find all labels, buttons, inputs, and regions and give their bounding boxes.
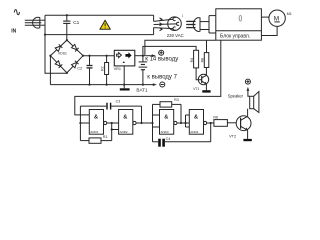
diode VDS1 lower-left — [55, 61, 62, 68]
wire motor return — [261, 26, 277, 35]
node junction — [184, 122, 186, 124]
transistor VT1 — [193, 68, 208, 92]
arrow to pin 14 — [146, 54, 156, 57]
capacitor C3 — [80, 99, 141, 109]
node junction — [123, 84, 125, 86]
resistor R3 — [153, 98, 182, 107]
wire feedback tie — [111, 123, 113, 141]
gate AND2 — [119, 110, 136, 135]
wire VR1 out to node — [135, 55, 145, 57]
plus symbol above speaker — [245, 79, 250, 84]
transistor VT2 — [229, 109, 251, 139]
node junction — [66, 72, 68, 74]
node junction — [49, 55, 51, 57]
svg-text:VDS1: VDS1 — [58, 52, 67, 56]
wire control box to oscillator enable — [75, 40, 221, 115]
node junction — [142, 84, 144, 86]
capacitor C1 — [63, 15, 79, 40]
resistor R8 — [201, 40, 209, 67]
wire into gate1 input — [80, 122, 89, 124]
wire top rail — [45, 14, 154, 16]
plug XP2 to control unit — [186, 18, 200, 32]
svg-text:M: M — [274, 15, 279, 22]
svg-text:C2: C2 — [77, 65, 83, 70]
ground under VT1 — [202, 90, 210, 92]
wire R4 to VT1 base — [196, 68, 202, 80]
node junction C1 top — [66, 14, 68, 16]
node junction — [88, 84, 90, 86]
wire gate4 out — [207, 122, 214, 124]
diode VDS1 upper-right — [72, 44, 79, 51]
svg-text:&: & — [94, 114, 98, 120]
AC sine symbol — [14, 10, 19, 15]
diode VDS1 upper-left — [55, 44, 62, 51]
wire gate2 out — [136, 122, 152, 124]
svg-text:VT2: VT2 — [229, 134, 236, 138]
resistor R1 — [80, 135, 111, 143]
bridge rectifier VDS1 — [50, 40, 83, 73]
svg-text:AND2: AND2 — [120, 130, 128, 134]
svg-text:R2: R2 — [100, 66, 104, 70]
node junction — [210, 122, 212, 124]
node bridge vertices — [66, 39, 68, 41]
svg-text:R4: R4 — [190, 58, 194, 62]
svg-text:&: & — [123, 114, 127, 120]
wire gate1 out to gate2 — [107, 122, 119, 124]
voltage regulator VR1 — [114, 50, 135, 71]
warning triangle — [100, 20, 110, 29]
svg-text:C4: C4 — [166, 137, 171, 141]
wire plug to rails — [41, 19, 45, 21]
speaker — [228, 92, 259, 113]
svg-text:230 VAC: 230 VAC — [167, 33, 184, 38]
node junction — [82, 55, 84, 57]
wire R3 feedback down — [180, 104, 182, 123]
svg-text:C1: C1 — [73, 20, 79, 26]
wire supply line A (to control box bottom corner) — [145, 40, 216, 56]
wire gate3 out — [177, 122, 189, 124]
node junction — [142, 55, 144, 57]
gate AND1 — [89, 110, 106, 135]
svg-text:R6: R6 — [213, 116, 218, 120]
node junction — [79, 122, 81, 124]
connector fan to socket — [154, 15, 177, 34]
socket XS1 230VAC — [167, 14, 184, 38]
svg-text:BAT1: BAT1 — [136, 87, 148, 92]
svg-text:&: & — [164, 114, 168, 120]
wire DC plus: bridge right vertex to VR1 — [83, 55, 114, 57]
resistor R6 — [213, 116, 236, 127]
svg-text:R3: R3 — [174, 98, 179, 102]
svg-text:R1: R1 — [103, 135, 108, 139]
gate AND4 — [189, 110, 206, 135]
svg-text:C3: C3 — [116, 99, 121, 103]
resistor R4 — [190, 50, 199, 68]
node junction — [151, 122, 153, 124]
plus symbol — [159, 50, 164, 55]
node junction — [180, 122, 182, 124]
svg-text:R8: R8 — [201, 58, 205, 62]
plug XP1 (mains plug) — [25, 17, 42, 28]
wire C3 right to gate2 out — [141, 106, 143, 123]
minus symbol — [160, 82, 165, 87]
wire left vertical (plug riser / AC feed to bridge) — [45, 15, 67, 73]
svg-text:к 14 выводу: к 14 выводу — [145, 57, 178, 63]
svg-text:AND3: AND3 — [161, 130, 169, 134]
arrow to pin 7 (bus end) — [153, 83, 157, 86]
node junction — [140, 122, 142, 124]
svg-text:1: 1 — [182, 14, 184, 18]
gate AND3 — [160, 110, 177, 135]
resistor R2 — [100, 56, 108, 85]
control unit box (Блок управл.) — [216, 9, 262, 40]
svg-text:M1: M1 — [287, 12, 292, 16]
svg-text:AND1: AND1 — [90, 130, 98, 134]
svg-text:VR1: VR1 — [114, 67, 121, 71]
ground under VT2 — [243, 139, 251, 141]
svg-text:&: & — [194, 114, 198, 120]
svg-text:IN: IN — [11, 29, 16, 35]
svg-text:AND4: AND4 — [190, 130, 198, 134]
wire supply line B — [143, 46, 196, 55]
wire gate3 input tie — [152, 104, 154, 141]
wire gate4 input tie — [185, 115, 187, 127]
node junction bottom rail — [44, 34, 46, 36]
capacitor C2 — [77, 56, 92, 85]
wire plug2 to connector bracket — [201, 16, 216, 33]
wire box to motor — [261, 16, 269, 18]
node junction — [111, 128, 113, 130]
wire VR1 gnd pin — [123, 66, 125, 85]
battery BAT1 — [136, 56, 148, 93]
svg-text:VT1: VT1 — [193, 87, 199, 91]
capacitor C4 — [153, 123, 211, 147]
svg-text:Speaker: Speaker — [228, 93, 244, 98]
svg-text:к выводу 7: к выводу 7 — [147, 74, 177, 80]
svg-text:Блок управл.: Блок управл. — [220, 34, 250, 40]
ground (chassis bar) — [120, 85, 130, 91]
node junction — [106, 55, 108, 57]
wire C3 left branch down — [79, 106, 81, 141]
node junction — [111, 122, 113, 124]
wire bottom rail — [45, 34, 154, 36]
wire negative bus — [50, 84, 153, 86]
wire DC minus: bridge left vertex to bus — [49, 56, 51, 85]
node junction — [106, 84, 108, 86]
node junction — [88, 55, 90, 57]
wire speaker to supply arrow — [247, 87, 250, 96]
diode VDS1 lower-right — [72, 61, 79, 68]
motor M1 — [269, 10, 292, 26]
